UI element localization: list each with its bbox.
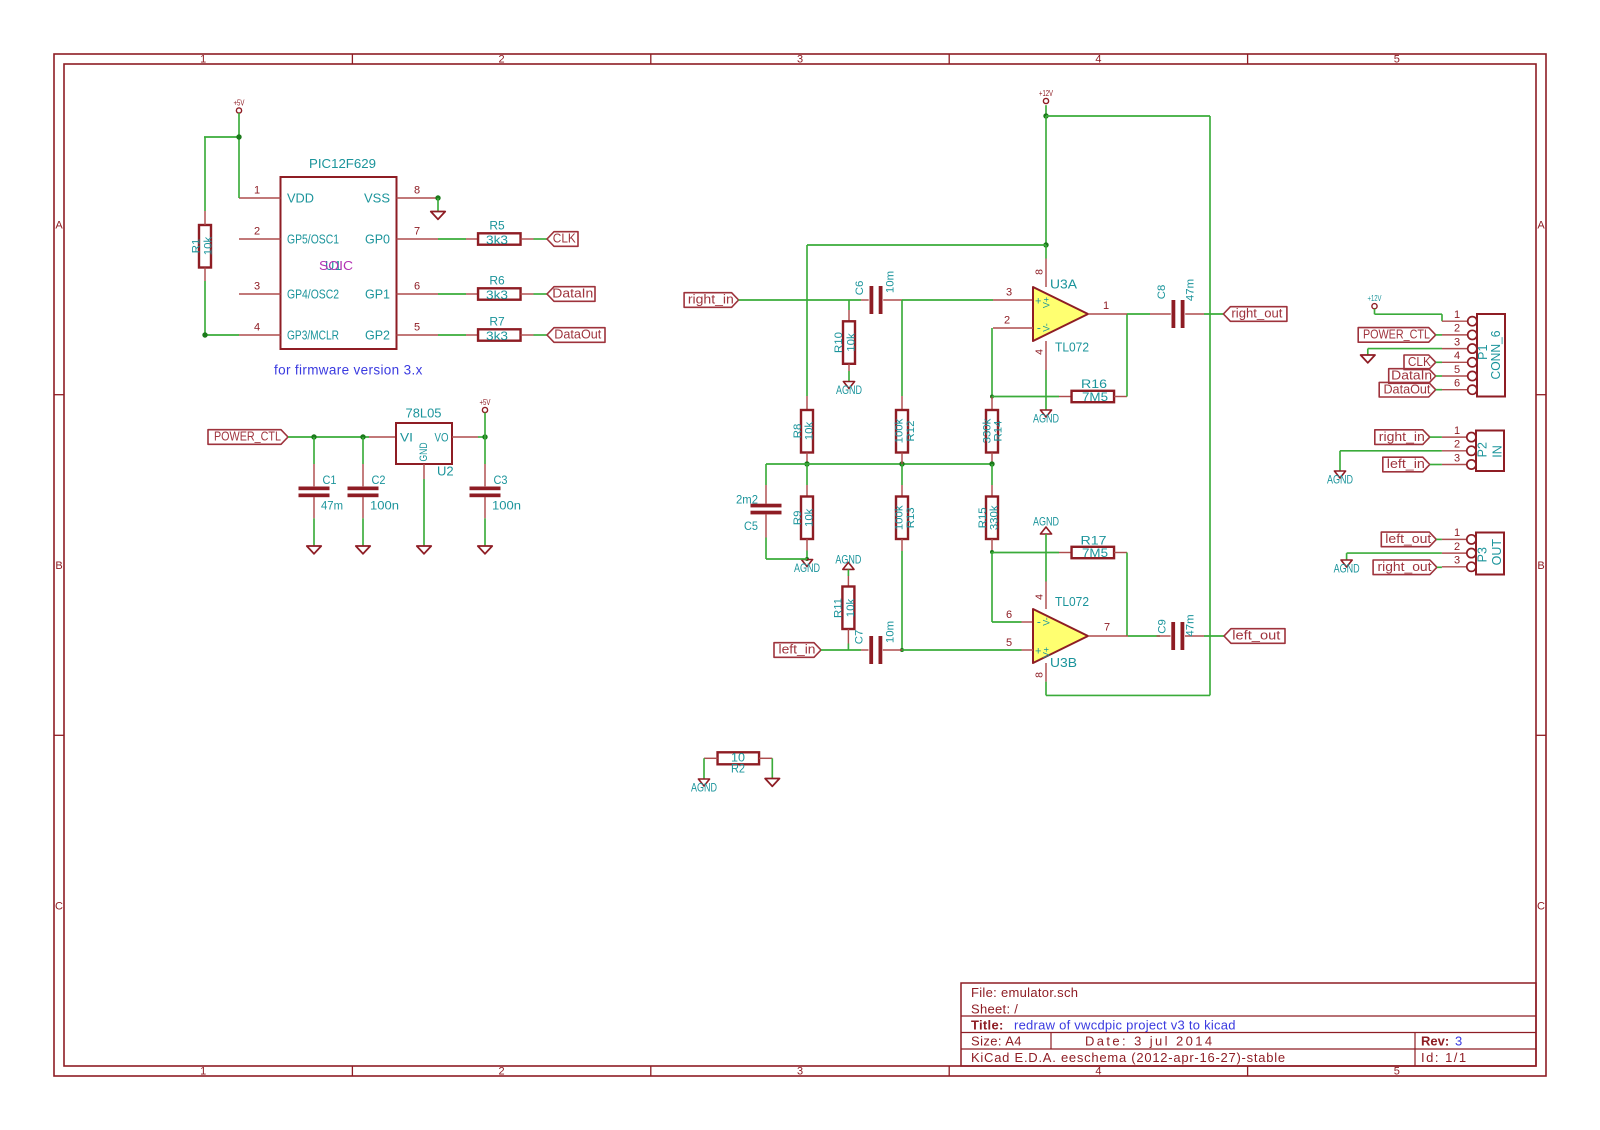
svg-text:1: 1 bbox=[1454, 425, 1460, 437]
svg-text:AGND: AGND bbox=[794, 561, 820, 575]
svg-text:C: C bbox=[1537, 901, 1545, 913]
svg-text:GP1: GP1 bbox=[365, 287, 390, 302]
svg-text:4: 4 bbox=[1095, 54, 1101, 66]
svg-text:7M5: 7M5 bbox=[1082, 546, 1108, 560]
svg-text:TL072: TL072 bbox=[1055, 340, 1089, 355]
svg-text:R13: R13 bbox=[905, 507, 917, 528]
svg-text:10k: 10k bbox=[803, 508, 815, 527]
svg-text:C2: C2 bbox=[372, 473, 386, 487]
svg-text:Date: 3 jul 2014: Date: 3 jul 2014 bbox=[1085, 1034, 1214, 1049]
svg-text:GP2: GP2 bbox=[365, 328, 390, 343]
svg-text:4: 4 bbox=[254, 322, 260, 334]
svg-text:GP4/OSC2: GP4/OSC2 bbox=[287, 287, 339, 302]
svg-text:10k: 10k bbox=[845, 333, 857, 352]
svg-text:5: 5 bbox=[1454, 364, 1460, 376]
svg-text:2: 2 bbox=[1454, 439, 1460, 451]
svg-text:PIC12F629: PIC12F629 bbox=[309, 156, 376, 171]
svg-text:2: 2 bbox=[254, 226, 260, 238]
svg-text:4: 4 bbox=[1095, 1066, 1101, 1078]
svg-text:B: B bbox=[1537, 560, 1544, 572]
svg-text:V-: V- bbox=[1042, 323, 1052, 332]
svg-text:5: 5 bbox=[414, 322, 420, 334]
svg-text:right_in: right_in bbox=[1379, 430, 1425, 444]
svg-text:R12: R12 bbox=[905, 421, 917, 442]
svg-text:GP3/MCLR: GP3/MCLR bbox=[287, 328, 339, 343]
svg-text:C3: C3 bbox=[494, 473, 508, 487]
svg-text:100k: 100k bbox=[893, 418, 905, 443]
svg-text:5: 5 bbox=[1006, 637, 1012, 649]
svg-text:4: 4 bbox=[1034, 594, 1046, 600]
svg-text:AGND: AGND bbox=[691, 781, 717, 795]
svg-text:right_out: right_out bbox=[1378, 560, 1433, 574]
svg-text:1: 1 bbox=[200, 54, 206, 66]
svg-text:AGND: AGND bbox=[1327, 473, 1353, 487]
svg-text:7M5: 7M5 bbox=[1082, 390, 1108, 404]
svg-text:POWER_CTL: POWER_CTL bbox=[1363, 328, 1430, 342]
svg-text:OUT: OUT bbox=[1490, 539, 1504, 566]
svg-text:VSS: VSS bbox=[364, 191, 390, 206]
svg-text:R6: R6 bbox=[489, 274, 505, 288]
svg-text:5: 5 bbox=[1394, 1066, 1400, 1078]
svg-text:7: 7 bbox=[414, 226, 420, 238]
svg-text:8: 8 bbox=[1034, 672, 1046, 678]
svg-text:R9: R9 bbox=[792, 511, 804, 526]
svg-text:KiCad E.D.A. eeschema (2012-a: KiCad E.D.A. eeschema (2012-apr-16-27)-s… bbox=[971, 1050, 1286, 1065]
svg-text:SOIC: SOIC bbox=[319, 258, 353, 273]
svg-text:left_in: left_in bbox=[1387, 457, 1425, 471]
svg-text:10m: 10m bbox=[884, 621, 896, 643]
svg-text:2: 2 bbox=[1004, 315, 1010, 327]
svg-text:C9: C9 bbox=[1156, 619, 1168, 634]
svg-text:78L05: 78L05 bbox=[406, 406, 442, 421]
svg-text:3k3: 3k3 bbox=[486, 329, 508, 343]
svg-text:left_out: left_out bbox=[1232, 629, 1281, 643]
svg-text:redraw of vwcdpic project v3 t: redraw of vwcdpic project v3 to kicad bbox=[1014, 1018, 1236, 1033]
svg-text:1: 1 bbox=[1103, 300, 1109, 312]
svg-text:P2: P2 bbox=[1476, 442, 1490, 457]
svg-text:TL072: TL072 bbox=[1055, 594, 1089, 609]
svg-text:VI: VI bbox=[400, 433, 413, 445]
svg-text:Size: A4: Size: A4 bbox=[971, 1034, 1022, 1049]
svg-text:2: 2 bbox=[499, 1066, 505, 1078]
svg-text:Title:: Title: bbox=[971, 1018, 1004, 1033]
svg-text:+: + bbox=[1035, 296, 1041, 308]
svg-text:R10: R10 bbox=[833, 332, 845, 353]
svg-text:47m: 47m bbox=[1184, 279, 1196, 301]
svg-text:VO: VO bbox=[435, 433, 449, 445]
svg-text:left_out: left_out bbox=[1385, 532, 1432, 546]
svg-text:Id: 1/1: Id: 1/1 bbox=[1421, 1050, 1468, 1065]
svg-text:CONN_6: CONN_6 bbox=[1489, 330, 1503, 379]
svg-text:7: 7 bbox=[1104, 622, 1110, 634]
svg-text:V+: V+ bbox=[1042, 297, 1052, 308]
svg-text:right_out: right_out bbox=[1231, 307, 1283, 321]
svg-text:C1: C1 bbox=[323, 473, 337, 487]
svg-text:+12V: +12V bbox=[1039, 89, 1053, 98]
svg-text:6: 6 bbox=[1454, 378, 1460, 390]
svg-text:right_in: right_in bbox=[688, 293, 734, 307]
svg-text:10k: 10k bbox=[803, 422, 815, 441]
svg-text:C8: C8 bbox=[1156, 285, 1168, 300]
svg-text:+5V: +5V bbox=[480, 398, 491, 407]
svg-text:for firmware version 3.x: for firmware version 3.x bbox=[274, 363, 423, 378]
svg-text:1: 1 bbox=[1454, 309, 1460, 321]
svg-text:AGND: AGND bbox=[1334, 562, 1360, 576]
svg-text:U3B: U3B bbox=[1050, 655, 1077, 670]
svg-text:left_in: left_in bbox=[779, 643, 816, 657]
svg-text:C6: C6 bbox=[854, 281, 866, 296]
svg-text:IN: IN bbox=[1490, 445, 1504, 458]
svg-text:A: A bbox=[55, 219, 63, 231]
svg-text:R11: R11 bbox=[832, 598, 844, 618]
svg-text:8: 8 bbox=[414, 185, 420, 197]
svg-text:R5: R5 bbox=[489, 219, 505, 233]
svg-text:3: 3 bbox=[254, 281, 260, 293]
svg-text:2m2: 2m2 bbox=[736, 493, 758, 507]
svg-text:2: 2 bbox=[1454, 323, 1460, 335]
svg-text:2: 2 bbox=[1454, 541, 1460, 553]
svg-text:DataIn: DataIn bbox=[1391, 369, 1432, 383]
svg-text:1: 1 bbox=[200, 1066, 206, 1078]
svg-text:DataOut: DataOut bbox=[1383, 382, 1431, 396]
svg-text:+5V: +5V bbox=[234, 99, 245, 108]
svg-text:6: 6 bbox=[1006, 609, 1012, 621]
svg-text:P3: P3 bbox=[1476, 547, 1490, 562]
svg-text:GP5/OSC1: GP5/OSC1 bbox=[287, 232, 339, 247]
svg-text:100n: 100n bbox=[370, 499, 399, 513]
svg-text:2: 2 bbox=[499, 54, 505, 66]
svg-text:AGND: AGND bbox=[1033, 515, 1059, 529]
svg-text:Sheet: /: Sheet: / bbox=[971, 1002, 1018, 1017]
svg-text:8: 8 bbox=[1034, 269, 1046, 275]
svg-text:5: 5 bbox=[1394, 54, 1400, 66]
svg-text:3: 3 bbox=[1454, 452, 1460, 464]
svg-text:+: + bbox=[1035, 646, 1041, 658]
svg-text:DataOut: DataOut bbox=[554, 328, 602, 342]
svg-text:10k: 10k bbox=[202, 237, 214, 256]
svg-text:R15: R15 bbox=[977, 507, 989, 528]
svg-text:V-: V- bbox=[1042, 617, 1052, 626]
svg-text:R8: R8 bbox=[792, 424, 804, 439]
svg-text:3: 3 bbox=[797, 1066, 803, 1078]
svg-text:Rev:: Rev: bbox=[1421, 1034, 1449, 1049]
svg-text:10k: 10k bbox=[845, 599, 857, 618]
svg-text:File: emulator.sch: File: emulator.sch bbox=[971, 985, 1078, 1000]
svg-text:GND: GND bbox=[418, 442, 430, 461]
svg-text:4: 4 bbox=[1454, 350, 1460, 362]
svg-text:GP0: GP0 bbox=[365, 232, 390, 247]
svg-text:C: C bbox=[55, 901, 63, 913]
svg-text:10m: 10m bbox=[884, 271, 896, 293]
svg-text:R7: R7 bbox=[489, 315, 505, 329]
svg-text:R2: R2 bbox=[731, 762, 745, 776]
svg-text:-: - bbox=[1037, 320, 1041, 334]
svg-text:1: 1 bbox=[254, 185, 260, 197]
svg-text:3: 3 bbox=[1454, 336, 1460, 348]
svg-text:CLK: CLK bbox=[1408, 355, 1432, 369]
svg-text:C7: C7 bbox=[853, 630, 865, 645]
svg-text:3k3: 3k3 bbox=[486, 288, 508, 302]
svg-text:C5: C5 bbox=[744, 519, 758, 533]
svg-text:-: - bbox=[1037, 614, 1041, 628]
svg-text:B: B bbox=[55, 560, 62, 572]
svg-text:AGND: AGND bbox=[1033, 412, 1059, 426]
svg-text:VDD: VDD bbox=[287, 191, 314, 206]
svg-text:6: 6 bbox=[414, 281, 420, 293]
svg-text:U2: U2 bbox=[437, 464, 454, 479]
svg-text:3: 3 bbox=[1455, 1034, 1462, 1049]
svg-text:4: 4 bbox=[1034, 349, 1046, 355]
svg-text:330k: 330k bbox=[988, 505, 1000, 530]
svg-text:100n: 100n bbox=[492, 499, 521, 513]
svg-text:3: 3 bbox=[797, 54, 803, 66]
svg-text:POWER_CTL: POWER_CTL bbox=[214, 430, 281, 444]
svg-text:A: A bbox=[1537, 219, 1545, 231]
svg-text:3: 3 bbox=[1006, 287, 1012, 299]
svg-text:R14: R14 bbox=[992, 421, 1004, 442]
svg-text:DataIn: DataIn bbox=[552, 287, 593, 301]
svg-text:AGND: AGND bbox=[835, 552, 861, 566]
svg-text:100k: 100k bbox=[893, 505, 905, 530]
svg-text:U3A: U3A bbox=[1050, 277, 1077, 292]
svg-text:R1: R1 bbox=[190, 239, 202, 254]
svg-text:3: 3 bbox=[1454, 555, 1460, 567]
svg-text:CLK: CLK bbox=[553, 232, 577, 246]
svg-text:1: 1 bbox=[1454, 527, 1460, 539]
svg-text:47m: 47m bbox=[1184, 614, 1196, 636]
svg-text:+12V: +12V bbox=[1368, 294, 1382, 303]
svg-text:AGND: AGND bbox=[836, 383, 862, 397]
svg-text:3k3: 3k3 bbox=[486, 233, 508, 247]
svg-text:47m: 47m bbox=[321, 499, 343, 513]
